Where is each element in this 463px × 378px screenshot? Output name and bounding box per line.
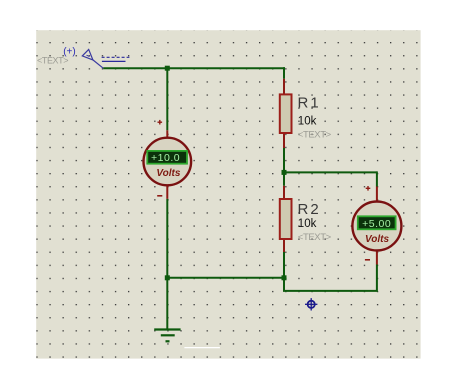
wire left branch lower [166, 199, 168, 279]
ground [154, 330, 180, 342]
wire segment above R2 [283, 171, 285, 185]
wire right voltmeter top [376, 171, 378, 186]
wire mid horizontal R1-R2 node to right voltmeter [283, 171, 377, 173]
wire bottom horizontal left [167, 277, 284, 279]
svg-text:+10.0: +10.0 [151, 152, 180, 164]
label R2 value 10k [298, 218, 317, 230]
wire left branch upper [166, 67, 168, 130]
svg-text:Volts: Volts [156, 168, 181, 179]
voltage probe (+) [82, 49, 103, 68]
pin left voltmeter top [166, 130, 168, 138]
label plus sign left voltmeter [158, 120, 163, 125]
junction node A top [165, 66, 170, 71]
white artifact line [184, 347, 220, 349]
pin R1 bottom [283, 133, 285, 148]
svg-text:Volts: Volts [365, 234, 390, 245]
label R1 TEXT placeholder [298, 129, 332, 140]
probe solid annotation line [102, 60, 126, 62]
probe dashed annotation line [102, 56, 130, 58]
label minus sign left voltmeter [157, 195, 162, 197]
pin R2 bottom [283, 239, 285, 252]
svg-text:10k: 10k [298, 115, 317, 127]
voltmeter U1 (+10.0 Volts) [144, 138, 192, 186]
wire bottom loop of right voltmeter [284, 265, 377, 291]
wire segment below R1 [283, 148, 285, 173]
label R1 ref [298, 94, 321, 111]
label R2 TEXT placeholder [298, 232, 332, 243]
junction node B mid (R1/R2) [282, 170, 287, 175]
wire ground stem [166, 278, 168, 329]
label R1 value 10k [298, 115, 317, 127]
svg-text:+5.00: +5.00 [362, 218, 391, 230]
pin R1 top [283, 79, 285, 95]
label plus sign right voltmeter [366, 186, 371, 191]
pin R2 top [283, 186, 285, 199]
wire top horizontal [103, 67, 285, 69]
label probe TEXT placeholder [37, 56, 68, 66]
pin right voltmeter top [376, 187, 378, 203]
junction node D bottom left [165, 275, 170, 280]
svg-text:R2: R2 [298, 201, 321, 218]
label minus sign right voltmeter [365, 259, 370, 261]
pin right voltmeter bottom [376, 250, 378, 265]
schematic canvas [36, 30, 420, 358]
svg-text:<TEXT>: <TEXT> [298, 129, 332, 140]
voltmeter U2 (+5.00 Volts) [352, 202, 401, 251]
wire segment below R2 [283, 252, 285, 278]
svg-text:R1: R1 [298, 94, 321, 111]
label probe (+) [63, 46, 75, 57]
wire top-right corner down to R1 [283, 67, 285, 79]
svg-text:10k: 10k [298, 218, 317, 230]
junction node C bottom right [282, 275, 287, 280]
resistor R2 [280, 199, 292, 239]
svg-text:<TEXT>: <TEXT> [37, 56, 68, 66]
pin left voltmeter bottom [166, 185, 168, 199]
label R2 ref [298, 201, 321, 218]
origin marker [305, 298, 317, 310]
svg-text:<TEXT>: <TEXT> [298, 232, 332, 243]
resistor R1 [280, 94, 292, 133]
